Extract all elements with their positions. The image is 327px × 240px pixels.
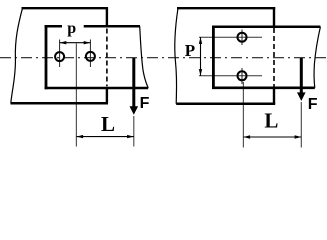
svg-text:L: L (264, 109, 278, 133)
svg-text:F: F (308, 96, 318, 113)
svg-text:p: p (67, 20, 76, 37)
svg-text:P: P (185, 41, 195, 60)
svg-text:L: L (101, 112, 115, 136)
svg-text:F: F (140, 95, 150, 112)
